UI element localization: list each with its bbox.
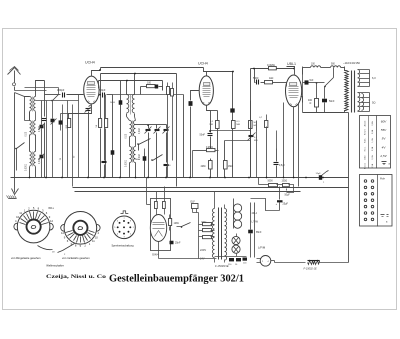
capacitor C9 [112,95,114,151]
capacitor C5 50pF [100,94,101,96]
wire bottom run [275,262,306,264]
svg-text:0,2A: 0,2A [371,129,374,134]
svg-text:50nF: 50nF [200,134,206,137]
resistor R18 [163,202,166,209]
wire vx67 [67,101,69,178]
svg-text:25µF: 25µF [283,203,289,206]
wire T1 s bottom [134,114,136,117]
resistor R8 1M [224,141,226,161]
output transformer T3 primary [212,209,214,258]
coil L3b [34,152,36,167]
bus risers [72,178,74,187]
svg-text:10: 10 [95,235,98,239]
svg-text:2MΩ: 2MΩ [201,166,206,168]
svg-text:6,3: 6,3 [372,76,376,80]
svg-text:0,02: 0,02 [126,133,128,138]
dial lamp LP2 [232,245,240,253]
band switch S1b [53,95,59,101]
wire avc [192,151,194,178]
loudspeaker LS [260,255,271,266]
wire U3 plate right [298,103,300,187]
svg-text:1,1A: 1,1A [371,138,374,143]
svg-text:MΩ: MΩ [254,140,258,142]
wire rail drop x251 [250,69,252,131]
switch S5 12uF [319,175,322,180]
wire drop t2 grid [186,94,188,96]
resistor R2 [99,119,102,128]
ground symbol [14,178,16,193]
wire bottom links [159,258,217,260]
wire vx78 [78,95,80,178]
wire vx62 [62,105,64,178]
wire plate feed [303,82,305,84]
svg-text:UBL1: UBL1 [287,62,296,66]
wire U3 right pin [301,97,303,103]
resistor R12 1k [265,81,273,84]
capacitor C18 50nF [322,99,327,103]
svg-text:Pole: Pole [380,178,385,181]
resistor R19 1M [169,219,172,226]
resistor R15 5000 [269,184,278,187]
wave switch dial rear view [64,212,97,245]
transformer TR1 heater winding [358,70,360,87]
wire T2-T3 links [129,137,131,147]
resistor R2b [105,119,108,128]
wire lamp rail [215,256,247,258]
svg-text:0,3MΩ: 0,3MΩ [267,63,275,67]
wire speaker right [271,260,275,262]
capacitor C10 [104,95,106,161]
wire mains rail [303,67,311,69]
EL F terminal [192,204,199,209]
svg-text:Masse: Masse [365,162,367,169]
tuning capacitor CV2 [156,125,158,129]
wire mid h2 [225,140,251,142]
wire T1 tops [126,81,128,95]
wire rail A [101,67,204,69]
svg-text:50nF: 50nF [329,100,335,103]
switch S3 [153,155,163,161]
volume potentiometer P1 [250,131,252,135]
resistor R10 [256,121,258,131]
antenna A1 [8,68,21,75]
trimmer capacitor CT1b [40,155,44,159]
svg-text:Wellenschalter: Wellenschalter [46,263,64,267]
svg-text:5000: 5000 [253,77,259,80]
tube U1 UCH4 [84,76,99,104]
capacitor C8 5000 [120,81,122,101]
capacitor C14 [189,101,193,106]
resistor R26 [243,258,248,261]
wire vx73 [72,105,74,178]
wire rail C [99,80,163,82]
resistor R13 0.7M [265,121,268,128]
resistor R9 [250,101,252,121]
oscillator coil L2a [30,121,32,136]
resistor R7 2M [210,159,212,161]
wire L1 bottom to bus [29,112,31,121]
wire rail B [101,73,177,75]
output transformer T3 secondary [225,209,227,261]
svg-text:5000: 5000 [268,181,274,183]
wire U3 pin drop [283,103,285,178]
svg-text:0,0301: 0,0301 [126,159,128,167]
resistor R11 0.3M [269,67,277,70]
tube U3 UBL1 [286,75,302,107]
wire mid connect [144,149,146,153]
svg-text:55V: 55V [381,128,387,132]
trimmer CV3 [166,125,168,129]
trimmer capacitor CT2 [51,119,55,123]
svg-text:BM-L: BM-L [49,208,55,210]
svg-text:25nF: 25nF [175,242,181,245]
wire L2b bottom [35,135,37,152]
tube U2 UCH4 [199,76,213,105]
wire TR bottom join [345,112,349,114]
svg-text:0,02: 0,02 [26,131,28,136]
indicator box [151,199,171,251]
capacitor C1 [44,81,46,117]
dial lamp LP1 [232,236,240,244]
supply bus B1 [73,187,349,189]
resistor R14 400 [315,99,319,108]
resistor R3c [171,89,174,97]
capacitor C6 [61,113,69,115]
svg-text:12: 12 [61,231,64,235]
wire x2547 [254,203,256,258]
wire U3 grid top [287,67,295,75]
svg-text:180Ω: 180Ω [201,222,207,224]
fuse F2 [331,66,341,68]
wire h90 [15,90,47,92]
mains switch S4 [325,78,334,87]
svg-text:ELF: ELF [191,201,196,204]
coil L3a [30,152,32,167]
svg-text:300pF: 300pF [57,88,65,92]
svg-text:0,5µF: 0,5µF [279,165,286,167]
wire x294 to bus [293,177,295,179]
wire vertical V2 [162,81,164,91]
svg-text:0,0301: 0,0301 [26,163,28,171]
svg-text:5Ω: 5Ω [372,101,375,105]
capacitor C22 25nF [170,241,174,245]
svg-text:5nF: 5nF [310,80,315,82]
IF transformer T3 secondary [134,147,136,163]
svg-text:150Ω: 150Ω [282,181,288,183]
svg-text:0,5A: 0,5A [371,163,374,168]
wire box pins [156,192,158,202]
svg-text:L/F/M: L/F/M [258,246,266,250]
svg-text:von rückwärts gesehen: von rückwärts gesehen [62,256,90,260]
svg-text:ÜW4: ÜW4 [152,253,159,257]
wire antenna drop [14,93,16,178]
wire U2 grid left [191,91,200,101]
wire rail A left drop [100,68,102,71]
wire U3 left contact [286,83,288,87]
svg-text:2,5V: 2,5V [379,154,387,158]
capacitor C16 5000 [255,82,256,84]
wire HT down [348,113,350,263]
wire L3b bottom to bus [35,167,37,178]
svg-text:Czeija, Nissl u. Co: Czeija, Nissl u. Co [46,274,106,280]
tube U4 UW4 [150,215,166,242]
svg-text:12: 12 [50,219,53,223]
svg-text:Kath.: Kath. [364,138,367,143]
resistor R25 [236,258,241,261]
wire power left [302,67,304,113]
fuse F1 [311,66,321,68]
svg-text:Sperrkreisschaltung: Sperrkreisschaltung [111,244,134,247]
transformer TR1 primary [345,71,349,111]
svg-text:UCH4: UCH4 [85,61,95,65]
resistor R21 [203,229,212,232]
capacitor C24 0.5uF [276,149,278,162]
capacitor C20 25uF [279,187,281,200]
resistor R23 field [308,261,320,265]
ground bus [11,177,349,179]
wire T3 bottoms [129,163,131,178]
voltage table [360,116,391,169]
resistor R17 [155,202,158,209]
connector table [360,175,393,227]
svg-text:MΩ: MΩ [237,124,241,126]
svg-text:50µF: 50µF [285,194,291,196]
transformer TR1 core [351,71,353,113]
wire U2 top riser [204,68,207,76]
resistor R5 [211,110,218,112]
wave switch dial front view [17,210,50,243]
svg-text:von Ringelseite gesehen: von Ringelseite gesehen [11,256,41,260]
wire power bottom [303,112,345,114]
svg-text:Anode: Anode [364,120,367,127]
svg-text:0,2MΩ: 0,2MΩ [206,147,213,149]
wire long vertical V1 [176,74,178,187]
svg-text:Heiz.: Heiz. [365,146,367,151]
wire antenna to L1 [15,93,30,97]
IF transformer T2 primary [130,121,132,137]
svg-text:F-15002-1E: F-15002-1E [304,267,318,270]
svg-text:Gestelleinbauempfänger 302/1: Gestelleinbauempfänger 302/1 [109,273,244,285]
tuning capacitor CV1 [148,125,150,129]
wire U2 plate top [207,72,233,109]
supply bus B2 [75,191,301,193]
capacitor C13 [230,108,234,112]
IF transformer T1 primary [127,95,129,113]
svg-text:F-15038/1E: F-15038/1E [215,264,229,268]
svg-text:100: 100 [147,82,152,85]
wire below caps [251,199,280,211]
capacitor C19 50uF [286,189,288,191]
resistor R16 150 [283,184,290,187]
wave switch S1a [17,143,25,149]
svg-text:Gitter: Gitter [364,155,367,160]
wire vertical V3 [183,95,185,178]
svg-text:12µF: 12µF [316,173,322,175]
switch S6 [182,223,191,227]
svg-text:Schirm: Schirm [365,129,367,136]
svg-text:220V: 220V [200,248,206,252]
wire L1 top [36,81,45,97]
wire mid h1 [211,130,251,132]
IF transformer T3 primary [130,147,132,163]
svg-text:5000: 5000 [135,159,141,161]
wire h87 [25,87,59,89]
wire h100 [36,100,79,102]
wire x254 vertical [252,220,254,222]
svg-text:10: 10 [16,215,19,219]
capacitor C23 85nF [250,203,252,230]
blocking circuit Sperrkreis [113,216,136,239]
resistor R22 [203,236,212,239]
wire U3 plate down [293,107,295,178]
svg-text:0,4A: 0,4A [371,121,374,126]
svg-text:60V: 60V [381,120,387,124]
capacitor C4 300pF [57,94,61,96]
wire L3a bottom to bus [29,167,31,178]
wire rail C left drop [98,81,100,89]
svg-text:1MΩ: 1MΩ [228,166,233,168]
wire rail B left drop [100,74,102,95]
svg-text:L/T/W: L/T/W [252,221,259,224]
ground hatch top-left [9,198,17,200]
svg-text:11: 11 [92,239,95,243]
svg-text:0,3A: 0,3A [371,146,374,151]
resistor R24 [229,258,234,261]
svg-text:UCH4: UCH4 [198,62,208,66]
capacitor C11 [144,153,146,157]
capacitor C15 50nF [210,111,212,133]
svg-text:1kΩ: 1kΩ [269,77,274,80]
wire T1 p bottom [126,114,128,117]
svg-text:85nF: 85nF [256,231,262,234]
wire L1-L2 link [29,112,31,121]
wire plate rail right [251,68,295,70]
resistor R3 100 [141,86,147,88]
resistor R1 [68,119,71,128]
wire L2a bottom [29,135,31,152]
resistor R20 [203,223,212,226]
trimmer capacitor CT1 [41,101,43,125]
wire U1 top [92,71,101,77]
trimmer capacitor C3 [89,105,92,107]
capacitor C12 [166,161,168,163]
svg-text:11: 11 [19,211,22,215]
svg-text:1MΩ: 1MΩ [174,222,179,225]
wire U2 cathode [207,106,211,111]
field coil L4 [233,199,235,229]
svg-text:0,092: 0,092 [139,128,141,134]
wire box bottom [158,242,160,251]
antenna coil L1 [30,97,32,112]
wire vx466 [46,101,48,178]
svg-text:Ω: Ω [310,102,312,105]
dial pointer [38,246,53,250]
wire res stack left [198,225,200,249]
wire U1 cathode [69,105,92,119]
resistor R3b [167,87,170,95]
wire branch x25 [24,97,26,121]
transformer TR1 rectifier winding [358,93,360,111]
IF transformer T1 secondary [132,95,134,113]
svg-text:0,1A: 0,1A [371,155,374,160]
wire C4 left [45,94,57,96]
resistor R6 0.2M [207,150,211,152]
switch S2 [139,139,151,145]
output transformer T3 core [218,208,220,260]
oscillator coil L2b [34,121,36,136]
svg-text:~110/130/150: ~110/130/150 [343,61,360,65]
resistor R4 [232,121,236,129]
IF transformer T2 secondary [134,121,136,137]
